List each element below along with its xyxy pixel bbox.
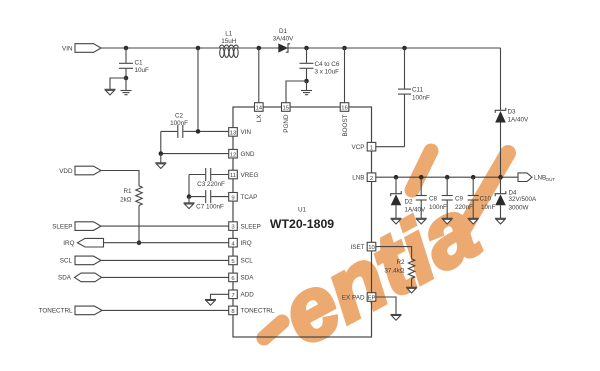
wire C2 left to GND pin (161, 131, 229, 153)
wire ADD to ground (211, 294, 230, 299)
node junction below C4 (304, 79, 309, 84)
wire VDD to R1 (101, 171, 139, 186)
svg-text:R2: R2 (396, 259, 405, 266)
node junction R1/IRQ (137, 240, 142, 245)
pin 2 LNB (352, 173, 376, 182)
svg-text:9: 9 (231, 195, 234, 201)
wire C3 to junction (188, 175, 190, 197)
wire main VIN rail (101, 47, 501, 49)
svg-text:15uH: 15uH (221, 38, 237, 45)
watermark letter l stroke (462, 153, 508, 232)
input flag TONECTRL (39, 306, 102, 315)
node junction C11 (402, 46, 407, 51)
inductor L1 (220, 31, 239, 58)
watermark letter d partial stroke (264, 322, 282, 338)
svg-text:WT20-1809: WT20-1809 (270, 217, 334, 231)
wire TONECTRL (102, 309, 229, 311)
svg-text:VCP: VCP (352, 144, 365, 151)
pin 6 SDA (229, 273, 255, 282)
svg-text:11: 11 (230, 173, 236, 179)
svg-text:ISET: ISET (351, 244, 365, 251)
diode D3 (495, 108, 529, 124)
svg-text:C10: C10 (480, 195, 492, 202)
svg-text:VDD: VDD (59, 168, 73, 175)
wire EX PAD to ground (376, 297, 396, 314)
wire BOOST pin to rail (344, 48, 346, 103)
capacitor C2 (161, 113, 198, 138)
ground open triangle D4 (495, 218, 506, 224)
svg-text:VIN: VIN (62, 45, 73, 52)
resistor R1 (120, 186, 142, 206)
wire to left ground (110, 78, 126, 89)
node junction GND (159, 151, 164, 156)
svg-text:10: 10 (368, 245, 375, 251)
wire C1 to earth ground (125, 78, 127, 90)
pin 10 ISET (351, 242, 376, 251)
capacitor C4 to C6 (300, 48, 340, 81)
svg-text:SLEEP: SLEEP (241, 223, 261, 230)
ground open triangle C8 (416, 218, 427, 224)
svg-text:7: 7 (231, 293, 234, 299)
node junction LX (257, 46, 262, 51)
wire down to VIN pin (198, 48, 229, 131)
capacitor C7 (189, 190, 229, 210)
ground open triangle left of C1 (105, 89, 116, 95)
svg-text:D3: D3 (508, 108, 517, 115)
pin 3 SLEEP (229, 222, 261, 231)
svg-text:37.4kΩ: 37.4kΩ (384, 267, 404, 274)
capacitor C1 (119, 48, 149, 78)
resistor R2 (384, 259, 414, 279)
ground earth below C1 (121, 91, 132, 95)
svg-text:C11: C11 (412, 87, 424, 94)
diode D1 (273, 28, 294, 53)
ground open triangle R2 (406, 287, 417, 293)
wire SDA (102, 276, 230, 278)
svg-text:LNB: LNB (534, 175, 546, 182)
output flag IRQ (63, 238, 103, 247)
wire LX pin to rail (258, 48, 260, 103)
svg-text:GND: GND (241, 151, 255, 158)
node junction C2 right (196, 129, 201, 134)
capacitor C10 (468, 177, 496, 218)
svg-text:10uF: 10uF (135, 67, 150, 74)
capacitor C8 (416, 177, 447, 218)
wire SCL (101, 259, 229, 261)
pin 7 ADD (229, 290, 255, 299)
ground open triangle C7 (184, 203, 195, 209)
pin 15 PGND (282, 103, 291, 133)
svg-text:3000W: 3000W (509, 204, 529, 211)
svg-text:C7 100nF: C7 100nF (196, 203, 224, 210)
svg-text:U1: U1 (298, 207, 307, 214)
svg-text:D2: D2 (405, 198, 414, 205)
svg-text:C1: C1 (135, 59, 144, 66)
output flag LNBout (518, 173, 555, 182)
ground open triangle C10 (468, 218, 479, 224)
svg-text:13: 13 (230, 131, 237, 137)
svg-text:3 x 10uF: 3 x 10uF (315, 68, 340, 75)
input flag VIN (62, 44, 101, 53)
svg-text:LNB: LNB (352, 175, 364, 182)
svg-text:IRQ: IRQ (63, 240, 74, 247)
pin 1 VCP (352, 142, 376, 151)
wire junction to earth (306, 81, 308, 90)
svg-text:C2: C2 (175, 113, 184, 120)
node junction C10 (471, 175, 476, 180)
ground open triangle EX PAD (391, 315, 402, 321)
svg-text:PGND: PGND (283, 114, 290, 133)
pin 16 BOOST (340, 103, 349, 137)
svg-text:C4 to C6: C4 to C6 (315, 61, 340, 68)
svg-text:R1: R1 (123, 188, 132, 195)
capacitor C9 (442, 177, 473, 218)
watermark Confidential (265, 178, 494, 366)
svg-text:TCAP: TCAP (241, 194, 258, 201)
node junction C8 (419, 175, 424, 180)
svg-text:32V/500A: 32V/500A (509, 196, 537, 203)
svg-text:C8: C8 (429, 195, 438, 202)
node junction C4 (304, 46, 309, 51)
wire LNB output line (376, 176, 518, 178)
svg-text:15: 15 (283, 106, 290, 112)
svg-text:16: 16 (341, 106, 348, 112)
svg-text:14: 14 (256, 106, 263, 112)
svg-text:10nF: 10nF (481, 204, 496, 211)
bidir flag SDA (58, 273, 101, 282)
pin 12 GND (229, 149, 255, 158)
ground open triangle C9 (442, 218, 453, 224)
pin 4 IRQ (229, 238, 252, 247)
node junction C9 (445, 175, 450, 180)
pin 5 SCL (229, 256, 254, 265)
diode D2 (391, 177, 426, 218)
node junction C3/C7 (187, 194, 192, 199)
wire R2 to ground (411, 279, 413, 287)
svg-text:1: 1 (370, 145, 373, 151)
wire R1 to IRQ line (138, 206, 140, 243)
pin 8 TONECTRL (229, 306, 275, 315)
svg-text:2: 2 (370, 176, 373, 182)
svg-text:1A/40V: 1A/40V (405, 206, 426, 213)
pin 14 LX (255, 103, 264, 123)
wire junction to ground (188, 197, 190, 203)
svg-text:D1: D1 (279, 28, 288, 35)
wire junction to ground (160, 154, 162, 163)
ground open triangle ADD (205, 300, 216, 306)
svg-text:SCL: SCL (60, 258, 73, 265)
svg-text:ADD: ADD (241, 292, 255, 299)
svg-text:TONECTRL: TONECTRL (241, 308, 275, 315)
pin 11 VREG (229, 170, 259, 179)
svg-text:IRQ: IRQ (241, 240, 252, 247)
svg-text:VIN: VIN (241, 129, 252, 136)
svg-text:L1: L1 (225, 31, 233, 38)
wire rail to D3 (500, 48, 502, 110)
svg-text:2kΩ: 2kΩ (120, 196, 132, 203)
svg-text:100nF: 100nF (170, 120, 188, 127)
svg-text:VREG: VREG (241, 172, 259, 179)
svg-text:SDA: SDA (241, 275, 255, 282)
wire D3 to LNB line (500, 123, 502, 178)
svg-text:SDA: SDA (58, 275, 72, 282)
svg-text:220nF: 220nF (455, 204, 473, 211)
svg-text:LX: LX (256, 114, 263, 123)
input flag SLEEP (52, 222, 101, 231)
input flag VDD (59, 166, 101, 175)
pin EP EX PAD (342, 293, 376, 302)
node junction below C1 (124, 76, 129, 81)
ground open triangle C2 (155, 163, 166, 169)
svg-text:SLEEP: SLEEP (52, 223, 72, 230)
input flag SCL (60, 256, 101, 265)
svg-text:OUT: OUT (546, 177, 556, 182)
ground open triangle D2 (391, 218, 402, 224)
wire junction to PGND pin (286, 81, 307, 103)
svg-text:3A/40V: 3A/40V (273, 35, 294, 42)
watermark stray stroke (412, 151, 431, 190)
svg-text:TONECTRL: TONECTRL (39, 308, 73, 315)
svg-text:100nF: 100nF (412, 95, 430, 102)
ground earth below C4 (301, 91, 312, 95)
svg-text:1A/40V: 1A/40V (508, 116, 529, 123)
svg-text:12: 12 (230, 152, 237, 158)
IC U1 body (233, 107, 372, 337)
svg-text:EP: EP (368, 296, 376, 302)
svg-text:SCL: SCL (241, 258, 254, 265)
pin 13 VIN (229, 128, 252, 137)
node junction VIN column (196, 46, 201, 51)
pin 9 TCAP (229, 193, 258, 202)
svg-text:EX PAD: EX PAD (342, 294, 365, 301)
node junction BOOST (342, 46, 347, 51)
svg-text:100nF: 100nF (429, 204, 447, 211)
svg-text:BOOST: BOOST (342, 114, 349, 136)
node junction C1 (124, 46, 129, 51)
svg-text:C9: C9 (455, 195, 464, 202)
capacitor C11 (398, 48, 430, 147)
node junction D4 (498, 175, 503, 180)
wire IRQ (104, 242, 230, 244)
diode D4 (495, 177, 537, 218)
wire ISET to R2 (376, 247, 412, 259)
node junction D2 (394, 175, 399, 180)
wire SLEEP (101, 225, 229, 227)
capacitor C3 (189, 168, 229, 188)
wire C11 to VCP (376, 146, 405, 148)
svg-text:C3 220nF: C3 220nF (197, 181, 225, 188)
